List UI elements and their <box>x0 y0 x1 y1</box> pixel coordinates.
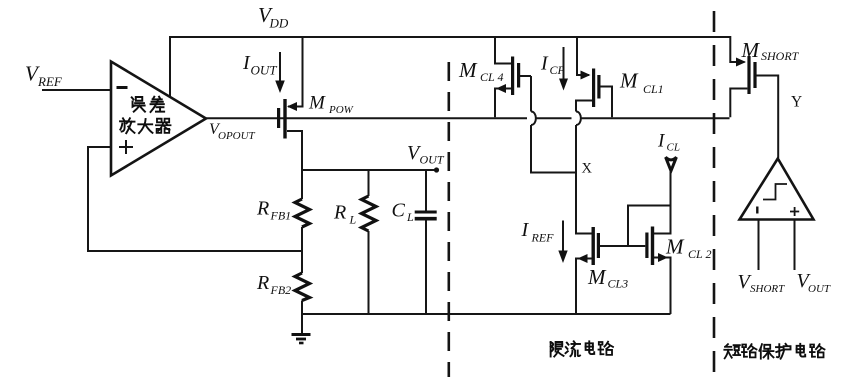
op-amp text 放大器 <box>120 118 171 133</box>
label R_L <box>333 202 357 227</box>
node VOUT dot <box>434 167 439 172</box>
svg-text:M: M <box>587 265 607 289</box>
comparator U2 (hysteresis) <box>740 159 814 220</box>
node V_SHORT label <box>738 271 786 295</box>
label I_CL <box>657 131 680 154</box>
node VOUT label <box>407 142 445 167</box>
section label 限流电路 <box>551 341 613 356</box>
wire feedback to plus input <box>88 147 302 251</box>
label R_FB1 <box>256 198 291 223</box>
separator dashed line (short protect) <box>713 11 716 377</box>
wire VDD to error amp top <box>169 36 171 97</box>
resistor R_FB2 <box>295 251 310 335</box>
op-amp plus input marker <box>119 140 133 154</box>
wire comparator right input <box>794 221 796 271</box>
wire comparator left input <box>758 221 760 271</box>
svg-text:SHORT: SHORT <box>761 49 800 63</box>
capacitor C_L <box>415 170 437 314</box>
wire VREF input <box>42 89 111 91</box>
op-amp U1 error amplifier triangle <box>111 62 206 176</box>
resistor R_FB1 <box>295 170 310 251</box>
wire VOUT node line <box>302 169 437 171</box>
current arrow I_REF <box>558 221 567 264</box>
wire VDD rail <box>170 36 730 38</box>
node V_OUT label (right) <box>797 270 831 295</box>
label M_CL2 <box>665 235 711 262</box>
svg-text:R: R <box>256 198 269 220</box>
svg-text:OUT: OUT <box>420 153 445 167</box>
transistor Q M_CL1 <box>576 37 612 117</box>
label M_POW <box>308 93 354 117</box>
transistor Q M_CL2 <box>628 171 671 314</box>
label R_FB2 <box>256 272 291 297</box>
svg-text:M: M <box>458 58 478 82</box>
svg-text:FB1: FB1 <box>270 209 292 223</box>
op-amp text 误差 <box>132 97 164 112</box>
label C_L <box>392 200 415 225</box>
label M_CL1 <box>619 69 664 97</box>
transistor Q M_POW <box>277 37 303 170</box>
transistor Q M_CL3 <box>576 227 628 314</box>
svg-text:C: C <box>392 200 406 222</box>
svg-text:I: I <box>540 53 549 75</box>
svg-text:CL 4: CL 4 <box>480 70 503 84</box>
svg-text:X: X <box>582 161 593 177</box>
svg-text:R: R <box>256 272 269 294</box>
svg-text:R: R <box>333 202 346 224</box>
op-amp minus input marker <box>117 86 128 89</box>
svg-text:M: M <box>619 69 639 93</box>
svg-text:OUT: OUT <box>808 283 831 295</box>
label M_CL4 <box>458 58 503 84</box>
label I_REF <box>521 219 555 245</box>
resistor R_L <box>362 170 377 314</box>
wire M_CL4 gate drop with hop <box>531 76 576 173</box>
svg-text:CL3: CL3 <box>608 277 629 291</box>
separator dashed line (current limit) <box>447 62 450 377</box>
label M_SHORT <box>741 38 800 63</box>
svg-text:L: L <box>349 213 357 227</box>
ground <box>292 335 311 344</box>
svg-text:OPOUT: OPOUT <box>218 130 256 142</box>
section label 短路保护电路 <box>724 344 824 359</box>
transistor Q M_SHORT <box>730 36 778 158</box>
transistor Q M_CL4 <box>495 37 531 117</box>
svg-text:SHORT: SHORT <box>750 283 785 295</box>
svg-text:I: I <box>521 219 530 241</box>
svg-text:CL1: CL1 <box>643 82 664 96</box>
svg-text:M: M <box>665 235 685 259</box>
node VDD label <box>258 3 289 31</box>
svg-text:CP: CP <box>550 63 566 77</box>
label M_CL3 <box>587 265 628 291</box>
svg-text:L: L <box>406 210 414 224</box>
node VREF label <box>25 62 63 90</box>
svg-text:OUT: OUT <box>251 63 278 78</box>
node VOPOUT label <box>209 121 256 142</box>
current probe I_CL <box>666 157 677 233</box>
wire VOPOUT gate line <box>204 117 730 119</box>
wire X node drop with hop <box>576 112 593 234</box>
svg-text:M: M <box>741 38 761 62</box>
current arrow I_CP <box>559 47 568 91</box>
current arrow I_OUT <box>275 52 285 93</box>
svg-text:POW: POW <box>328 104 354 116</box>
svg-text:M: M <box>308 93 326 114</box>
svg-text:REF: REF <box>531 231 555 245</box>
label I_CP <box>540 53 566 78</box>
svg-text:FB2: FB2 <box>270 283 292 297</box>
label I_OUT <box>242 52 277 78</box>
svg-text:CL 2: CL 2 <box>688 247 711 261</box>
svg-text:REF: REF <box>37 74 63 89</box>
svg-text:CL: CL <box>667 142 680 154</box>
svg-text:Y: Y <box>791 94 802 111</box>
svg-text:DD: DD <box>269 16 289 31</box>
wire ground rail <box>302 313 671 315</box>
